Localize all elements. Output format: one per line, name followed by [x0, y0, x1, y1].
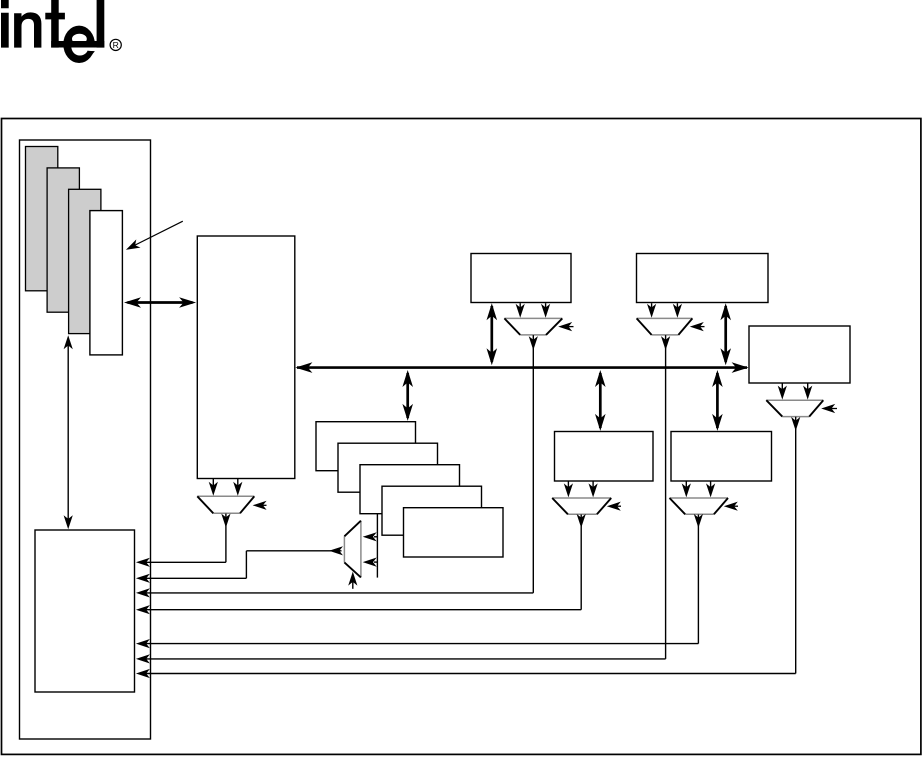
wire M2 output to control block: [136, 335, 670, 663]
mux M3 select arrow: [607, 502, 621, 511]
register <-> execution double arrow: [124, 297, 196, 308]
mux M5 input arrow a: [778, 383, 787, 399]
mux M4 input arrow a: [682, 481, 691, 497]
mux M3 input arrow a: [564, 481, 573, 497]
bus <-> U2 double arrow: [720, 303, 731, 365]
wire M5 output to control block: [136, 417, 800, 678]
intel logo letter i: [1, 0, 9, 48]
intel logo dropped letter e: [51, 26, 104, 63]
mux M1 input arrow a: [516, 303, 525, 318]
pointer arrow to active bank: [126, 221, 183, 250]
mux M2: [637, 318, 693, 335]
active register bank (white): [90, 211, 123, 355]
stacked register A: [316, 422, 416, 471]
mux M2 select arrow: [690, 322, 705, 331]
control block: [35, 530, 135, 692]
stacked register E: [404, 508, 504, 557]
SFR block U1: [471, 254, 571, 303]
mux M4 input arrow b: [706, 481, 715, 497]
wire M1 output to control block: [136, 335, 538, 597]
mux M1: [504, 318, 562, 335]
intel logo letter n: [14, 12, 41, 47]
mux M5 select arrow: [821, 404, 837, 413]
wire M4 output to control block: [136, 514, 703, 648]
mux M6 (vertical): [344, 521, 361, 578]
mux M2 input arrow a: [647, 303, 656, 318]
internal bus: [295, 362, 748, 373]
register-file panel: [20, 140, 151, 739]
wire M3 output to control block: [136, 514, 586, 614]
registered trademark symbol: [110, 39, 121, 50]
mux M5: [766, 400, 823, 416]
mux M3: [552, 498, 611, 514]
execution unit block: [197, 236, 294, 479]
stacked register B: [338, 443, 438, 492]
register bank 2 (shaded): [69, 189, 101, 333]
mux M3 input arrow b: [589, 481, 598, 497]
intel logo letter l: [97, 0, 105, 48]
mux M4 select arrow: [724, 502, 738, 511]
bank select double arrow: [64, 335, 73, 529]
mux M1 input arrow b: [541, 303, 550, 318]
mux M1 select arrow: [558, 322, 573, 331]
register bank 1 (shaded): [47, 168, 79, 312]
wire M6 output to control block: [136, 546, 343, 583]
register bank 0 (shaded): [26, 147, 58, 291]
svg-text:R: R: [113, 40, 119, 50]
mux M0 select arrow: [253, 501, 267, 510]
stacked register C: [360, 465, 460, 514]
bus <-> M3 double arrow: [595, 370, 606, 431]
mux M6 input feed wire: [376, 514, 378, 578]
mux M6 input arrow a: [363, 532, 378, 541]
mux M4: [670, 498, 729, 514]
mux M6 select arrow: [348, 572, 357, 589]
wire M0 output to control block: [136, 514, 231, 567]
SFR block U3: [749, 326, 850, 383]
mux M0 input arrow a: [209, 479, 218, 496]
SFR block M3box: [555, 432, 654, 482]
mux M0 input arrow b: [233, 479, 242, 496]
mux M5 input arrow b: [803, 383, 812, 399]
mux M6 input arrow b: [363, 558, 378, 567]
mux M0: [197, 496, 254, 513]
SFR block M4box: [671, 432, 772, 482]
mux M2 input arrow b: [673, 303, 682, 318]
intel logo letter t: [45, 0, 65, 48]
bus <-> stacked-register double arrow: [402, 370, 413, 421]
bus <-> U1 double arrow: [487, 303, 498, 365]
stacked register D: [382, 486, 482, 535]
bus <-> M4 double arrow: [712, 370, 723, 431]
SFR block U2: [637, 254, 769, 303]
